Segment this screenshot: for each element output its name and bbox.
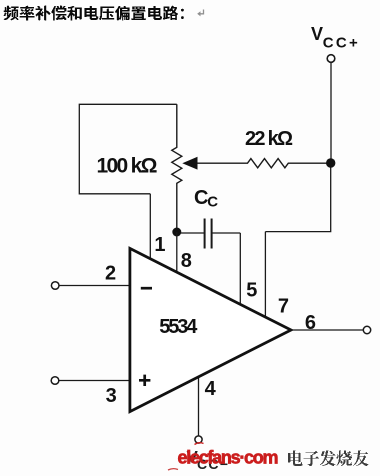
svg-text:1: 1 xyxy=(154,234,165,256)
potentiometer wiper arrow xyxy=(182,157,197,170)
terminal input pin 2 xyxy=(51,282,59,290)
svg-text:C: C xyxy=(207,194,218,211)
svg-text:2: 2 xyxy=(105,263,116,285)
terminal output xyxy=(363,326,370,333)
terminal input pin 3 xyxy=(51,377,59,385)
wire junction down then left to pin 7 drop xyxy=(265,163,330,232)
wire pin 8 drop xyxy=(176,232,178,274)
capacitor CC xyxy=(181,219,240,249)
op-amp U1 triangle xyxy=(130,248,291,411)
potentiometer 100k body xyxy=(172,104,182,232)
node VCC- label xyxy=(187,448,229,473)
wire output pin 6 xyxy=(291,329,363,331)
svg-text:100 kΩ: 100 kΩ xyxy=(97,154,158,177)
label CC xyxy=(194,187,218,211)
junction dot pin8/CC xyxy=(172,228,181,237)
op-amp inverting minus sign xyxy=(141,287,152,290)
wire pin 5 drop xyxy=(239,233,241,306)
resistor 22 kOhm (wire + zigzag + wire) xyxy=(197,159,331,168)
wire pin 2 input xyxy=(59,285,130,287)
wire pin 4 drop xyxy=(198,370,200,436)
svg-text:3: 3 xyxy=(106,385,117,407)
svg-text:C: C xyxy=(194,187,208,209)
svg-text:V: V xyxy=(311,24,323,44)
svg-text:5534: 5534 xyxy=(159,316,198,338)
watermark 电子发烧友 xyxy=(288,451,369,467)
svg-text:CC+: CC+ xyxy=(323,35,358,52)
svg-text:4: 4 xyxy=(205,378,217,400)
node VCC+ label xyxy=(311,24,358,52)
terminal VCC+ xyxy=(327,55,335,63)
wire feedback box around 100k xyxy=(79,104,177,194)
wire VCC+ down to junction xyxy=(330,63,332,164)
op-amp non-inverting plus sign xyxy=(139,375,150,386)
paragraph return mark xyxy=(197,10,203,17)
svg-text:7: 7 xyxy=(278,296,289,318)
svg-text:6: 6 xyxy=(305,312,316,334)
title text 频率补偿和电压偏置电路： xyxy=(4,6,184,21)
wire pin 7 drop xyxy=(264,232,266,318)
terminal VCC- pin 4 xyxy=(195,436,202,443)
wire pin 1 drop xyxy=(149,194,151,262)
svg-text:elecfans·com: elecfans·com xyxy=(178,447,279,467)
svg-text:8: 8 xyxy=(181,250,192,272)
wire pin 3 input xyxy=(59,380,130,382)
junction dot 22k/VCC+ xyxy=(326,158,335,167)
watermark elecfans.com xyxy=(168,443,279,470)
svg-text:5: 5 xyxy=(246,279,257,301)
svg-text:22 kΩ: 22 kΩ xyxy=(245,128,293,150)
